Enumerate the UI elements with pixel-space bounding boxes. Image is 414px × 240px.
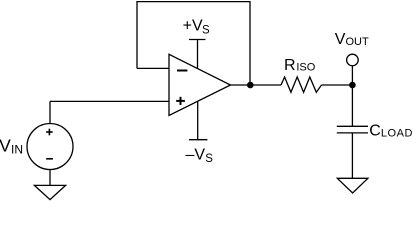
svg-text:RISO: RISO [284,57,316,74]
svg-text:–VS: –VS [186,147,214,166]
svg-text:CLOAD: CLOAD [369,123,413,140]
svg-text:+VS: +VS [183,18,210,37]
svg-text:VIN: VIN [0,135,23,156]
svg-text:VOUT: VOUT [335,31,369,48]
